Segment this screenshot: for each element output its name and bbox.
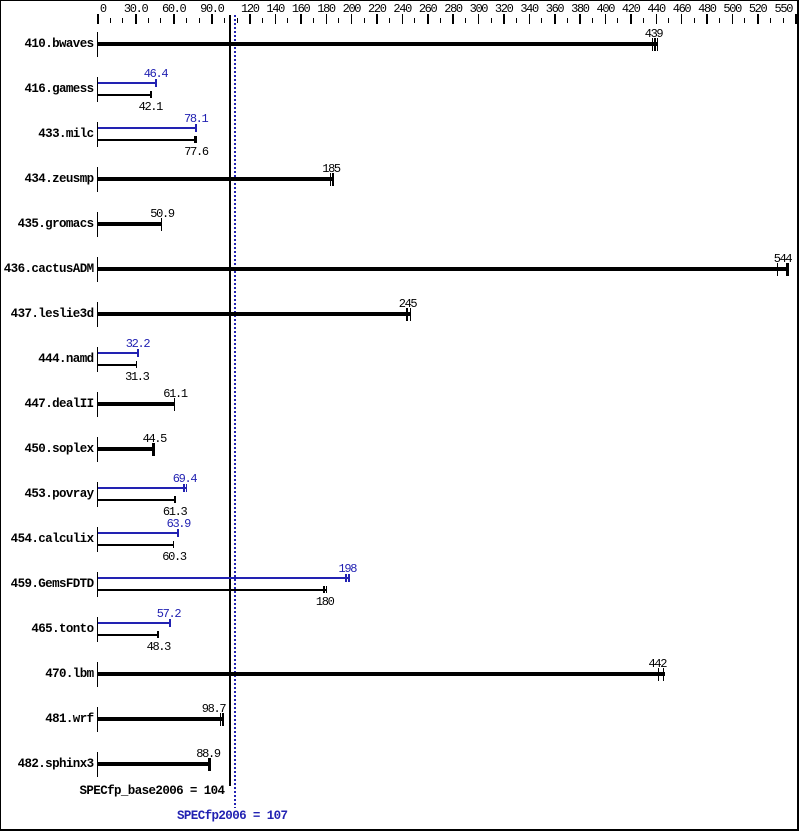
row 436.cactusADM: [0, 263, 94, 276]
baseline tick 459.GemsFDTD: [97, 572, 98, 597]
baseline tick 444.namd: [97, 347, 98, 372]
baseline tick 454.calculix: [97, 527, 98, 552]
axis label 160: [271, 3, 331, 15]
axis label 200: [321, 3, 381, 15]
axis label 340: [499, 3, 559, 15]
baseline tick 453.povray: [97, 482, 98, 507]
bar base 436.cactusADM = 544: [98, 267, 789, 271]
row 416.gamess: [0, 83, 94, 96]
axis label 520: [728, 3, 788, 15]
row 433.milc: [0, 128, 94, 141]
baseline tick 447.dealII: [97, 392, 98, 417]
axis label 240: [372, 3, 432, 15]
axis label 90.0: [182, 3, 242, 15]
axis label 280: [423, 3, 483, 15]
bar base 459.GemsFDTD = 180: [98, 589, 327, 591]
baseline tick 416.gamess: [97, 77, 98, 102]
baseline tick 433.milc: [97, 122, 98, 147]
axis label 440: [626, 3, 686, 15]
axis label 140: [245, 3, 305, 15]
baseline tick 434.zeusmp: [97, 167, 98, 192]
row 481.wrf: [0, 713, 94, 726]
bar base 437.leslie3d = 245: [98, 312, 410, 316]
bar base 434.zeusmp = 185: [98, 177, 334, 181]
axis label 30.0: [106, 3, 166, 15]
axis label 60.0: [144, 3, 204, 15]
row 434.zeusmp: [0, 173, 94, 186]
axis label 220: [347, 3, 407, 15]
base mean line 104: [229, 15, 231, 786]
bar base 416.gamess = 42.1: [98, 94, 151, 96]
axis label 480: [677, 3, 737, 15]
border top: [0, 0, 799, 1]
bar peak 459.GemsFDTD = 198: [98, 577, 350, 579]
axis label 320: [474, 3, 534, 15]
axis label 460: [652, 3, 712, 15]
axis label 260: [398, 3, 458, 15]
bar base 433.milc = 77.6: [98, 139, 196, 141]
axis label 360: [525, 3, 585, 15]
footer peak label: [177, 810, 287, 823]
row 435.gromacs: [0, 218, 94, 231]
bar peak 454.calculix = 63.9: [98, 532, 179, 534]
bar base 435.gromacs = 50.9: [98, 222, 162, 226]
row 453.povray: [0, 488, 94, 501]
bar peak 465.tonto = 57.2: [98, 622, 170, 624]
bar base 465.tonto = 48.3: [98, 634, 159, 636]
row 454.calculix: [0, 533, 94, 546]
axis label 180: [296, 3, 356, 15]
border right: [797, 0, 799, 831]
bar base 447.dealII = 61.1: [98, 402, 175, 406]
axis label 500: [702, 3, 762, 15]
baseline tick 465.tonto: [97, 617, 98, 642]
bar peak 433.milc = 78.1: [98, 127, 197, 129]
axis label 400: [575, 3, 635, 15]
bar base 470.lbm = 442: [98, 672, 665, 676]
peak mean line 107 (dotted): [234, 15, 236, 808]
bar base 450.soplex = 44.5: [98, 447, 154, 451]
bar base 444.namd = 31.3: [98, 364, 137, 366]
baseline tick 481.wrf: [97, 707, 98, 732]
bar base 482.sphinx3 = 88.9: [98, 762, 211, 766]
axis major ticks: [97, 14, 99, 24]
border bottom: [0, 829, 799, 831]
bar peak 444.namd = 32.2: [98, 352, 139, 354]
row 437.leslie3d: [0, 308, 94, 321]
row 459.GemsFDTD: [0, 578, 94, 591]
baseline tick 470.lbm: [97, 662, 98, 687]
bar peak 416.gamess = 46.4: [98, 82, 157, 84]
axis minor ticks: [110, 18, 111, 23]
axis label 420: [601, 3, 661, 15]
footer base label: [80, 785, 225, 798]
baseline tick 435.gromacs: [97, 212, 98, 237]
bar base 481.wrf = 98.7: [98, 717, 224, 721]
bar base 410.bwaves = 439: [98, 42, 657, 46]
row 482.sphinx3: [0, 758, 94, 771]
baseline tick 450.soplex: [97, 437, 98, 462]
row 465.tonto: [0, 623, 94, 636]
baseline tick 437.leslie3d: [97, 302, 98, 327]
baseline tick 436.cactusADM: [97, 257, 98, 282]
baseline tick 482.sphinx3: [97, 752, 98, 777]
axis label 120: [220, 3, 280, 15]
bar base 453.povray = 61.3: [98, 499, 176, 501]
axis label 300: [448, 3, 508, 15]
bar peak 453.povray = 69.4: [98, 487, 186, 489]
axis label 550: [753, 3, 799, 15]
baseline tick 410.bwaves: [97, 32, 98, 57]
row 450.soplex: [0, 443, 94, 456]
axis label 380: [550, 3, 610, 15]
row 470.lbm: [0, 668, 94, 681]
row 447.dealII: [0, 398, 94, 411]
border left: [0, 0, 1, 831]
bar base 454.calculix = 60.3: [98, 544, 174, 546]
axis label 0: [73, 3, 133, 15]
row 410.bwaves: [0, 38, 94, 51]
row 444.namd: [0, 353, 94, 366]
